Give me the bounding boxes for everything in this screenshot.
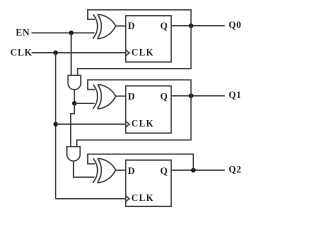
xor-gate X3 [93,158,116,182]
node CLK junction 2 [53,122,58,127]
node A1 output junction [72,101,77,106]
wire Q1 output [171,95,225,97]
wire X2 output to U2 D [116,95,126,97]
svg-text:Q: Q [160,21,168,32]
wire CLK input [32,52,126,54]
wire Q2 output [171,169,225,171]
wire EN input [32,32,95,34]
d-flip-flop U2 [126,86,172,133]
node Q2 junction [191,168,196,173]
svg-text:Q2: Q2 [229,166,242,176]
svg-text:Q: Q [160,166,168,177]
wire CLK to U3 [56,198,126,200]
clock edge triangle U1 [126,50,130,56]
wire A1 to A2 with jog [71,103,75,146]
svg-text:Q1: Q1 [229,91,242,101]
wire CLK to U2 [56,123,126,125]
svg-text:CLK: CLK [131,194,154,204]
svg-text:D: D [128,91,135,102]
wire Q1 feedback loop top to X2 [88,80,191,96]
wire A1 to X2 [74,102,94,104]
svg-text:Q: Q [160,91,168,102]
wire Q0 feedback down to AND A1 [78,26,192,76]
wire X3 output to U3 D [116,169,126,171]
d-flip-flop U1 [126,16,172,62]
svg-text:CLK: CLK [131,119,154,129]
svg-text:D: D [128,166,135,177]
wire Q2 feedback loop top to X3 [88,154,194,170]
and-gate A2 [67,147,80,161]
wire Q0 output [171,25,225,27]
svg-text:CLK: CLK [131,49,154,59]
wire CLK trunk down [55,53,57,199]
wire EN to AND A1 [70,33,72,76]
clock edge triangle U2 [126,121,130,127]
and-gate A1 [68,75,81,89]
node CLK junction [53,50,58,55]
wire A2 output to X3 [74,161,95,177]
svg-text:Q0: Q0 [229,21,242,31]
wire Q0 feedback loop top to X1 [88,10,191,26]
node EN junction [69,31,74,36]
svg-text:CLK: CLK [10,49,32,59]
wire Q1 feedback down to AND A2 [77,96,191,147]
clock edge triangle U3 [126,196,130,202]
wire A1 output [73,90,75,104]
svg-text:D: D [128,21,135,32]
xor-gate X1 [93,14,116,38]
svg-text:EN: EN [16,29,30,39]
d-flip-flop U3 [126,160,172,206]
node Q0 junction [189,23,194,28]
xor-gate X2 [93,85,116,109]
wire X1 output to U1 D [116,25,126,27]
node Q1 junction [189,94,194,99]
